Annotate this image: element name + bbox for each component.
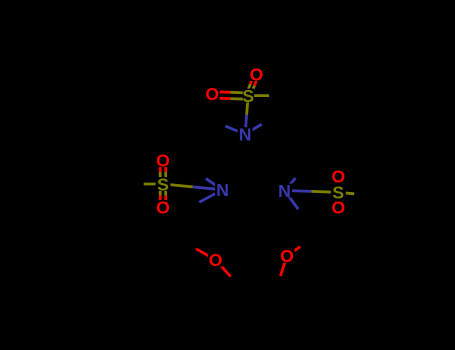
svg-text:O: O [331,198,345,218]
svg-text:S: S [242,86,254,106]
svg-text:O: O [331,167,345,187]
svg-text:O: O [156,151,170,171]
svg-text:O: O [280,246,294,266]
svg-text:O: O [209,250,223,270]
svg-text:O: O [156,197,170,217]
svg-text:S: S [157,174,169,194]
svg-text:O: O [205,84,219,104]
svg-text:N: N [216,180,229,200]
svg-text:N: N [239,125,252,145]
svg-text:N: N [278,181,291,201]
svg-text:O: O [250,65,264,85]
